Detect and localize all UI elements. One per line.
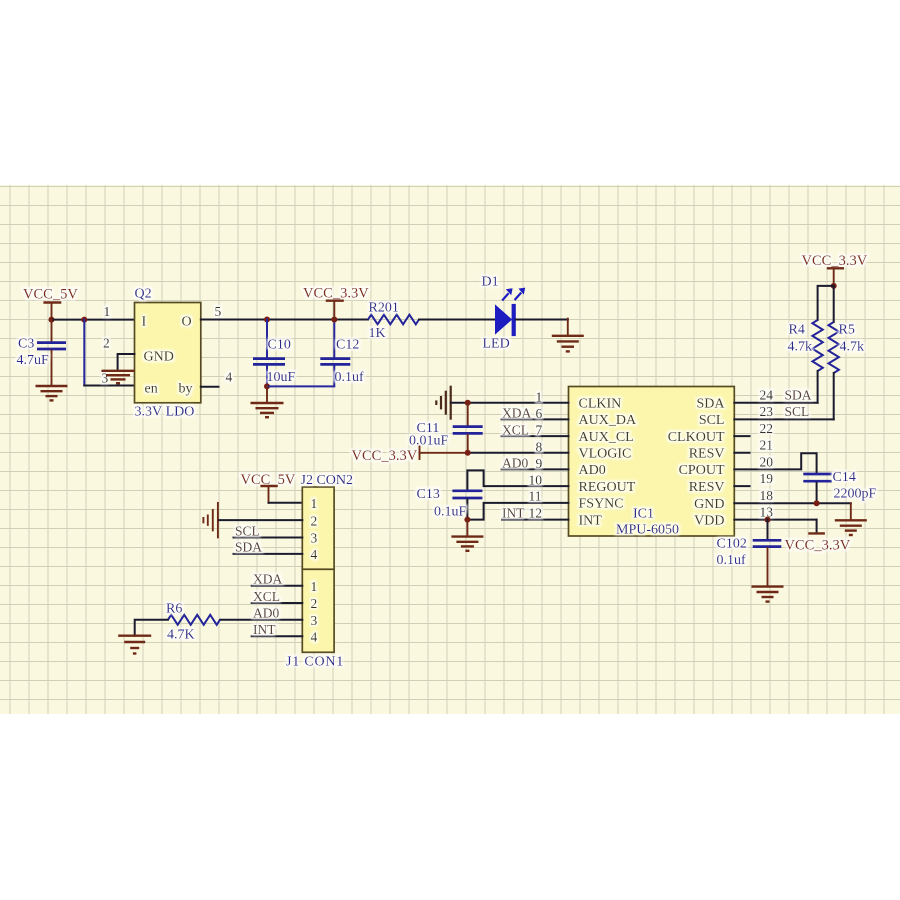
capacitor C12 bbox=[320, 320, 350, 365]
svg-text:3.3V LDO: 3.3V LDO bbox=[135, 405, 195, 420]
wire/net label XCL (pin 7) bbox=[502, 422, 569, 437]
svg-text:C13: C13 bbox=[417, 487, 440, 502]
wire/net label XDA (pin 6) bbox=[502, 406, 569, 421]
svg-text:SDA: SDA bbox=[235, 540, 262, 555]
svg-text:RESV: RESV bbox=[689, 480, 725, 495]
svg-text:I: I bbox=[142, 315, 147, 330]
junction node VCC_3.3V mid bbox=[331, 317, 337, 323]
ground (J2 pin2, left-pointing) bbox=[203, 503, 218, 538]
junction node C10 top bbox=[264, 317, 270, 323]
svg-text:1K: 1K bbox=[369, 326, 386, 341]
ground (pin 18) bbox=[835, 503, 867, 535]
svg-text:4: 4 bbox=[226, 370, 233, 385]
ground (D1) bbox=[552, 336, 584, 352]
LED D1 bbox=[495, 288, 525, 337]
junction node en-branch bbox=[81, 317, 87, 323]
svg-text:D1: D1 bbox=[482, 275, 499, 290]
svg-text:SDA: SDA bbox=[696, 397, 725, 412]
svg-text:J1 CON1: J1 CON1 bbox=[286, 655, 344, 670]
wire SDA row (pin 24) bbox=[734, 388, 817, 403]
wire/net label SDA (J2 pin4) bbox=[234, 540, 303, 555]
svg-text:2200pF: 2200pF bbox=[834, 487, 877, 502]
svg-text:0.1uF: 0.1uF bbox=[434, 505, 467, 520]
power symbol VCC_5V (top left) bbox=[23, 287, 78, 320]
wire/net label XCL (J1 pin2) bbox=[252, 589, 303, 604]
label C13 value bbox=[417, 487, 467, 520]
svg-text:by: by bbox=[179, 382, 193, 397]
svg-text:6: 6 bbox=[536, 406, 543, 421]
IC1 left pin names bbox=[579, 397, 637, 529]
capacitor C11 bbox=[453, 403, 483, 453]
resistor R4 bbox=[812, 286, 833, 403]
label R6 value bbox=[166, 602, 195, 643]
svg-text:19: 19 bbox=[760, 471, 774, 486]
svg-text:VCC_5V: VCC_5V bbox=[23, 287, 78, 303]
svg-text:SCL: SCL bbox=[785, 404, 810, 419]
junction node R4/R5 top bbox=[831, 283, 837, 289]
svg-text:0.1uf: 0.1uf bbox=[335, 370, 365, 385]
svg-text:CPOUT: CPOUT bbox=[679, 463, 725, 478]
svg-text:9: 9 bbox=[536, 456, 543, 471]
svg-text:VLOGIC: VLOGIC bbox=[579, 447, 632, 462]
svg-text:Q2: Q2 bbox=[135, 287, 152, 302]
resistor R6 bbox=[168, 615, 220, 625]
svg-text:0.01uF: 0.01uF bbox=[409, 434, 449, 449]
svg-text:3: 3 bbox=[102, 371, 109, 386]
svg-text:VCC_3.3V: VCC_3.3V bbox=[352, 448, 418, 464]
svg-text:AUX_DA: AUX_DA bbox=[579, 413, 637, 428]
svg-text:12: 12 bbox=[529, 506, 543, 521]
wire branch to en pin bbox=[84, 320, 134, 386]
svg-text:4.7K: 4.7K bbox=[167, 628, 195, 643]
svg-text:VCC_3.3V: VCC_3.3V bbox=[802, 253, 868, 269]
wire J2 pin2 bbox=[219, 519, 302, 521]
power symbol VCC_3.3V (VDD, bar down) bbox=[785, 520, 851, 554]
wire VLOGIC row / node pin8 bbox=[465, 450, 569, 456]
wire GND row (pin 18) bbox=[734, 488, 851, 504]
wire VDD row (pin 13) bbox=[734, 505, 816, 520]
Q2 pin4 stub bbox=[201, 386, 219, 388]
wire VCC_5V bus to Q2 pin1 bbox=[52, 319, 135, 321]
label C10 value bbox=[267, 338, 296, 386]
junction node C102 top bbox=[765, 517, 771, 523]
svg-text:XDA: XDA bbox=[502, 406, 531, 421]
label R201 value bbox=[369, 301, 399, 342]
wire/net label AD0 (J1 pin3) bbox=[220, 606, 302, 621]
connector J2 CON2 body bbox=[302, 487, 334, 569]
resistor R5 bbox=[829, 286, 839, 420]
svg-text:en: en bbox=[145, 382, 158, 397]
wire/net label AD0 (pin 9) bbox=[502, 456, 569, 471]
ground (C13) bbox=[451, 520, 483, 551]
svg-text:REGOUT: REGOUT bbox=[579, 480, 636, 495]
svg-text:GND: GND bbox=[144, 350, 174, 365]
power symbol VCC_5V (J2) bbox=[241, 472, 303, 503]
svg-text:4.7k: 4.7k bbox=[788, 340, 813, 355]
wire/net label XDA (J1 pin1) bbox=[252, 572, 303, 587]
svg-text:AD0: AD0 bbox=[502, 456, 528, 471]
ground (R6) bbox=[118, 636, 151, 654]
wire/net label SCL (J2 pin3) bbox=[234, 523, 303, 538]
svg-text:INT: INT bbox=[253, 622, 276, 637]
svg-text:INT: INT bbox=[502, 505, 525, 520]
svg-text:2: 2 bbox=[311, 596, 318, 611]
svg-text:4.7uF: 4.7uF bbox=[17, 353, 50, 368]
svg-text:AUX_CL: AUX_CL bbox=[579, 430, 634, 445]
svg-text:R6: R6 bbox=[166, 602, 182, 617]
Q2 pin names bbox=[142, 315, 193, 397]
junction node VCC_5V/C3 bbox=[49, 317, 55, 323]
svg-text:VCC_3.3V: VCC_3.3V bbox=[785, 538, 851, 554]
label C14 value bbox=[833, 470, 877, 502]
schematic sheet background bbox=[0, 185, 900, 714]
svg-text:1: 1 bbox=[311, 496, 318, 511]
svg-text:SDA: SDA bbox=[785, 388, 812, 403]
capacitor C3 bbox=[37, 320, 66, 386]
label R5 value bbox=[839, 323, 865, 355]
svg-text:20: 20 bbox=[760, 454, 774, 469]
svg-text:INT: INT bbox=[579, 513, 603, 528]
wire D1 cathode to ground bbox=[516, 319, 568, 336]
J1 pin numbers bbox=[311, 579, 318, 645]
svg-text:3: 3 bbox=[311, 613, 318, 628]
svg-text:3: 3 bbox=[311, 531, 318, 546]
junction node C10 bottom bbox=[264, 383, 270, 389]
svg-text:GND: GND bbox=[694, 497, 724, 512]
svg-text:5: 5 bbox=[215, 304, 222, 319]
svg-text:0.1uf: 0.1uf bbox=[717, 553, 747, 568]
wire SCL row (pin 23) bbox=[734, 404, 833, 419]
wire REGOUT to C13 top bbox=[467, 470, 568, 489]
transistor/regulator Q2 body bbox=[135, 303, 201, 403]
wire CLKIN row / node pin1 bbox=[451, 400, 569, 406]
svg-text:VDD: VDD bbox=[694, 513, 724, 528]
svg-text:2: 2 bbox=[103, 336, 110, 351]
svg-text:C3: C3 bbox=[18, 337, 34, 352]
svg-text:22: 22 bbox=[760, 421, 774, 436]
svg-text:SCL: SCL bbox=[699, 413, 725, 428]
svg-text:AD0: AD0 bbox=[579, 463, 606, 478]
ground (C10) bbox=[251, 386, 284, 417]
svg-text:1: 1 bbox=[104, 304, 111, 319]
svg-text:C14: C14 bbox=[833, 470, 856, 485]
power label VCC_3.3V (VLOGIC) bbox=[352, 447, 468, 464]
wire Q2 pin5 to R201 bbox=[201, 319, 368, 321]
svg-text:SCL: SCL bbox=[235, 523, 260, 538]
junction node C14 bottom bbox=[814, 500, 820, 506]
svg-text:8: 8 bbox=[536, 440, 543, 455]
label R4 value bbox=[788, 323, 813, 355]
svg-text:C102: C102 bbox=[717, 537, 747, 552]
svg-text:MPU-6050: MPU-6050 bbox=[616, 523, 679, 538]
svg-text:2: 2 bbox=[311, 513, 318, 528]
svg-text:XDA: XDA bbox=[253, 572, 282, 587]
junction node C13 bottom bbox=[464, 517, 470, 523]
svg-text:J2 CON2: J2 CON2 bbox=[301, 473, 354, 488]
svg-text:4.7k: 4.7k bbox=[840, 340, 865, 355]
svg-text:VCC_3.3V: VCC_3.3V bbox=[303, 286, 369, 302]
label C12 value bbox=[335, 338, 365, 386]
svg-text:CLKIN: CLKIN bbox=[579, 397, 622, 412]
label C3 value bbox=[17, 337, 50, 369]
resistor R201 bbox=[368, 315, 419, 325]
svg-text:11: 11 bbox=[529, 489, 542, 504]
svg-text:18: 18 bbox=[760, 488, 774, 503]
svg-text:CLKOUT: CLKOUT bbox=[668, 430, 725, 445]
stub pin 22 bbox=[734, 421, 773, 436]
svg-text:10: 10 bbox=[529, 473, 543, 488]
svg-text:C12: C12 bbox=[336, 338, 359, 353]
svg-text:7: 7 bbox=[536, 423, 543, 438]
svg-text:XCL: XCL bbox=[253, 589, 280, 604]
label C11 value bbox=[409, 421, 449, 449]
svg-text:IC1: IC1 bbox=[633, 507, 654, 522]
svg-text:10uF: 10uF bbox=[267, 370, 296, 385]
capacitor C102 bbox=[753, 520, 782, 587]
svg-text:23: 23 bbox=[760, 404, 774, 419]
stub pin 19 bbox=[734, 471, 773, 486]
wire R6 to ground bbox=[135, 620, 168, 636]
connector J1 CON1 body bbox=[302, 569, 334, 652]
svg-text:21: 21 bbox=[760, 438, 774, 453]
svg-text:LED: LED bbox=[483, 337, 510, 352]
capacitor C10 bbox=[253, 320, 285, 387]
power symbol VCC_3.3V (mid) bbox=[303, 286, 369, 320]
svg-text:R5: R5 bbox=[839, 323, 855, 338]
wire Q2 pin2 to ground bbox=[118, 354, 135, 370]
capacitor C13 bbox=[452, 491, 482, 520]
wire/net label INT (J1 pin4) bbox=[252, 622, 303, 637]
wire FSYNC to C13 bottom bbox=[467, 503, 568, 520]
power symbol VCC_3.3V (top right) bbox=[802, 253, 868, 286]
svg-text:4: 4 bbox=[311, 547, 318, 562]
svg-text:R201: R201 bbox=[369, 301, 399, 316]
svg-text:AD0: AD0 bbox=[253, 606, 279, 621]
wire R201 to D1 bbox=[419, 319, 495, 321]
svg-text:1: 1 bbox=[536, 390, 543, 405]
svg-text:R4: R4 bbox=[789, 323, 805, 338]
wire/net label INT (pin 12) bbox=[502, 505, 569, 520]
wire CPOUT to C14 (pin 20) bbox=[734, 453, 816, 472]
ground (C102) bbox=[752, 587, 784, 602]
svg-text:FSYNC: FSYNC bbox=[579, 497, 624, 512]
svg-text:RESV: RESV bbox=[689, 447, 725, 462]
stub pin 21 bbox=[734, 438, 773, 453]
svg-text:XCL: XCL bbox=[502, 422, 529, 437]
ground (CLKIN, left-pointing) bbox=[436, 386, 450, 420]
ground (C3) bbox=[36, 386, 68, 400]
ground (Q2 pin2) bbox=[102, 371, 135, 383]
wire C10-C12 bottom link bbox=[267, 366, 334, 387]
svg-text:1: 1 bbox=[311, 579, 318, 594]
IC1 right pin names bbox=[668, 397, 726, 529]
J2 pin numbers bbox=[311, 496, 318, 562]
svg-text:O: O bbox=[182, 315, 192, 330]
svg-text:4: 4 bbox=[311, 630, 318, 645]
svg-text:24: 24 bbox=[760, 388, 774, 403]
capacitor C14 bbox=[803, 474, 832, 503]
op-amp/IC U1 MPU-6050 body bbox=[569, 387, 735, 537]
svg-text:C10: C10 bbox=[268, 338, 291, 353]
label C102 value bbox=[717, 537, 747, 569]
